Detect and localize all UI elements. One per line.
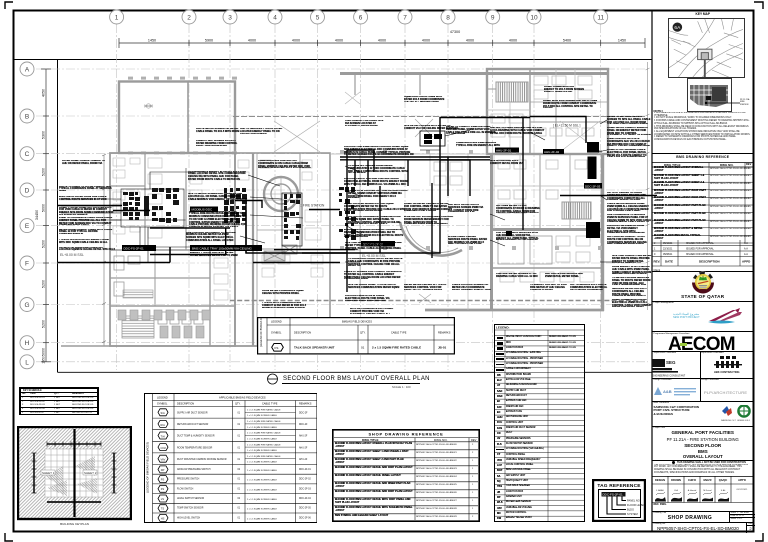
description / qty / cable / remarks tiny text (177, 411, 311, 519)
svg-text:2: 2 (654, 242, 656, 245)
left black logo text (652, 356, 698, 378)
svg-text:PS: PS (160, 477, 164, 481)
svg-text:CO2: CO2 (160, 446, 166, 450)
svg-text:01: 01 (237, 458, 240, 460)
svg-text:JB-01: JB-01 (438, 346, 447, 350)
svg-text:VAV: VAV (160, 457, 165, 461)
svg-text:A.Hamid: A.Hamid (688, 489, 697, 492)
svg-text:DESCRIPTION: DESCRIPTION (294, 332, 311, 335)
svg-text:DDC-2F: DDC-2F (299, 424, 308, 426)
svg-text:SYMBOL: SYMBOL (157, 402, 168, 405)
project title (652, 426, 754, 461)
bottom tick strip (47, 501, 101, 503)
svg-text:DESCRIPTION: DESCRIPTION (699, 259, 720, 263)
svg-text:DDC-2F-02: DDC-2F-02 (299, 478, 311, 480)
grid row lines (light) (36, 69, 648, 362)
svg-text:BMS/AS FIELD DEVICES: BMS/AS FIELD DEVICES (342, 320, 372, 324)
svg-text:DP: DP (160, 467, 164, 471)
svg-text:ROOM TEMPERATURE SENSOR: ROOM TEMPERATURE SENSOR (177, 446, 213, 449)
central building grid (45, 449, 103, 497)
ref dwg row (652, 503, 754, 511)
right wing walls (490, 154, 493, 311)
svg-text:01: 01 (237, 412, 240, 414)
svg-text:DWG TITLE: DWG TITLE (362, 437, 379, 441)
NPP section (652, 301, 754, 333)
svg-text:1 x 1.5 SQMM SCREEN CABLE: 1 x 1.5 SQMM SCREEN CABLE (247, 460, 278, 463)
svg-text:DWG NO.: DWG NO. (434, 437, 448, 441)
dashed site line (230, 300, 645, 302)
crop mark top-left (5, 2, 13, 9)
mid wing walls (235, 153, 330, 346)
svg-text:DDC-2F-03: DDC-2F-03 (299, 488, 311, 490)
top corridor band (340, 72, 608, 75)
svg-text:CABLE TYPE: CABLE TYPE (262, 402, 278, 405)
svg-text:01: 01 (237, 435, 240, 437)
svg-text:HS: HS (160, 516, 164, 520)
crop mark bottom-right (755, 533, 763, 541)
x marks (233, 116, 645, 118)
AECOM section (652, 331, 754, 352)
svg-text:HIGH LEVEL SWITCH: HIGH LEVEL SWITCH (177, 517, 200, 519)
svg-text:LEGEND: LEGEND (157, 395, 168, 399)
svg-text:01: 01 (361, 346, 365, 350)
supervision consultants two boxes (652, 351, 754, 379)
svg-text:05/12/2021: 05/12/2021 (737, 489, 749, 491)
BMS DRAWING REFERENCE table (652, 153, 754, 251)
svg-text:DESIGN: DESIGN (655, 478, 665, 482)
svg-text:2 x 1.5 SQMM SCREEN CABLE: 2 x 1.5 SQMM SCREEN CABLE (247, 517, 278, 520)
hexagons (158, 408, 168, 521)
grid bubbles left (20, 62, 34, 369)
left dimension line (41, 69, 51, 362)
svg-text:2 x 1.5 SQMM SCREEN CABLE: 2 x 1.5 SQMM SCREEN CABLE (247, 498, 278, 501)
svg-text:1 x 1.5 SQMM SCREEN CABLE: 1 x 1.5 SQMM SCREEN CABLE (247, 449, 278, 452)
svg-text:APPD: APPD (742, 259, 751, 263)
svg-text:GREEN GULF: GREEN GULF (737, 420, 751, 422)
svg-text:1 x 1.5 SQMM SCREEN CABLE: 1 x 1.5 SQMM SCREEN CABLE (247, 437, 278, 440)
client: Qatar emblem (652, 271, 754, 302)
svg-text:CHK'D: CHK'D (688, 478, 696, 482)
left/right vertical dims (32, 453, 117, 493)
svg-text:J. ABAD: J. ABAD (656, 489, 665, 492)
key map box 2 (dark port map) (687, 78, 732, 111)
svg-text:FLOOR LEVEL: FLOOR LEVEL (627, 503, 645, 507)
svg-text:REMARKS: REMARKS (438, 332, 451, 335)
svg-text:DDC-2F-04: DDC-2F-04 (299, 498, 311, 500)
svg-text:2 x 1.5 SQMM SCREEN CABLE: 2 x 1.5 SQMM SCREEN CABLE (247, 488, 278, 491)
svg-text:LS: LS (160, 496, 163, 500)
svg-text:AIRFLOW PRESSURE SWITCH: AIRFLOW PRESSURE SWITCH (177, 467, 211, 470)
svg-text:DDC-2F-06: DDC-2F-06 (299, 517, 311, 519)
central corridor band detail (330, 154, 487, 300)
crop mark top-right (754, 2, 763, 9)
right edge dim line (646, 62, 650, 310)
svg-text:REMARKS: REMARKS (299, 402, 312, 405)
bus wires left (58, 206, 170, 263)
svg-text:LEGEND: LEGEND (271, 320, 282, 324)
svg-text:(LEGEND OF BMS/AS FIELD DEVICE: (LEGEND OF BMS/AS FIELD DEVICES) (145, 441, 149, 492)
svg-text:ISSUED FOR APPROVAL: ISSUED FOR APPROVAL (686, 242, 715, 245)
svg-text:CABLE TYPE: CABLE TYPE (391, 332, 407, 335)
left wing room fixtures (113, 158, 323, 300)
stairs hatch bottom-left (122, 316, 154, 338)
hall outline (119, 82, 235, 154)
svg-text:AHU-2F: AHU-2F (299, 446, 308, 449)
svg-text:HBK CONTRACTING: HBK CONTRACTING (714, 370, 740, 374)
svg-text:2 x 1.5 SQMM SCREEN CABLE: 2 x 1.5 SQMM SCREEN CABLE (247, 468, 278, 471)
svg-text:S/A: S/A (160, 411, 164, 415)
svg-text:REV: REV (471, 437, 477, 441)
svg-text:DDC-2F-05: DDC-2F-05 (299, 507, 311, 509)
svg-text:2 x 1.5 SQMM FIRE RATED CABLE: 2 x 1.5 SQMM FIRE RATED CABLE (247, 454, 281, 457)
circular lobby (400, 222, 462, 256)
svg-text:PRESSURE SWITCH: PRESSURE SWITCH (177, 478, 200, 480)
svg-text:APPLICABLE BMS/AS FIELD DEVICE: APPLICABLE BMS/AS FIELD DEVICES (219, 395, 266, 399)
black label bars (122, 131, 602, 359)
shop drawing row (652, 511, 754, 523)
pointer + tiny label right of map2 (652, 10, 753, 120)
svg-text:FLOW SWITCH: FLOW SWITCH (177, 488, 194, 490)
svg-text:FS: FS (275, 346, 279, 350)
svg-text:DRAWN: DRAWN (671, 478, 681, 482)
svg-text:DUCT MOUNTED CARBON DIOXIDE SE: DUCT MOUNTED CARBON DIOXIDE SENSOR (177, 457, 227, 460)
svg-text:22/10/21: 22/10/21 (663, 247, 673, 250)
svg-text:A&B: A&B (663, 389, 672, 394)
svg-text:SYMBOL: SYMBOL (271, 332, 282, 335)
svg-text:SHOP DRAWING REFERENCE: SHOP DRAWING REFERENCE (368, 431, 443, 436)
svg-text:TAG REFERENCE: TAG REFERENCE (597, 483, 641, 489)
svg-text:DDC-2F: DDC-2F (299, 412, 308, 414)
right stairs (562, 202, 591, 219)
svg-text:ISSUED FOR APPROVAL: ISSUED FOR APPROVAL (686, 247, 715, 250)
leader lines (240, 120, 612, 262)
svg-text:S.Ali: S.Ali (721, 489, 726, 492)
svg-text:QTY.: QTY. (360, 332, 366, 335)
disclaimer line (652, 460, 754, 465)
svg-text:RETURN AIR DUCT SENSOR: RETURN AIR DUCT SENSOR (177, 423, 209, 426)
hatched triangles inside grid (45, 466, 63, 488)
circular stair (264, 177, 298, 211)
svg-text:JLA: JLA (674, 489, 678, 492)
svg-text:DESCRIPTION: DESCRIPTION (177, 402, 194, 405)
svg-text:TS: TS (160, 506, 164, 510)
svg-text:SYSTEM: SYSTEM (627, 512, 638, 516)
svg-text:2 x 1.5 SQMM FIRE RATED CABLE: 2 x 1.5 SQMM FIRE RATED CABLE (372, 346, 421, 350)
design consultants two boxes (652, 378, 754, 402)
approvals table (652, 476, 754, 503)
interior dim line (102, 154, 106, 346)
svg-text:01: 01 (237, 424, 240, 426)
svg-text:ISSUED FOR APPROVAL: ISSUED FOR APPROVAL (686, 253, 715, 256)
svg-text:2 x 1.5 SQMM SCREEN CABLE: 2 x 1.5 SQMM SCREEN CABLE (247, 507, 278, 510)
svg-text:QA/QC: QA/QC (719, 478, 728, 482)
svg-text:TALK BACK SPEAKER UNIT: TALK BACK SPEAKER UNIT (294, 346, 335, 350)
svg-text:02: 02 (237, 468, 240, 470)
crop mark bottom-left (5, 533, 13, 541)
svg-text:DATE: DATE (665, 259, 673, 263)
svg-text:R/A: R/A (160, 422, 165, 426)
svg-text:2 x 1.5 SQMM FIRE RATED CABLE: 2 x 1.5 SQMM FIRE RATED CABLE (247, 420, 281, 423)
svg-text:DUCT TEMP & HUMIDITY SENSOR: DUCT TEMP & HUMIDITY SENSOR (177, 435, 215, 437)
cable sub-row lines for tall rows (245, 412, 296, 458)
svg-text:SUPPLY AIR DUCT SENSOR: SUPPLY AIR DUCT SENSOR (177, 411, 208, 414)
svg-text:A.A: A.A (744, 247, 748, 250)
right wing interior detail (430, 154, 602, 310)
svg-text:PANEL NO.: PANEL NO. (627, 499, 641, 503)
extra center annotations (345, 242, 403, 250)
right HBK logo (714, 356, 744, 377)
key map label (652, 12, 754, 16)
svg-text:T/H: T/H (160, 434, 164, 438)
DDC cluster left: equipment boxes (123, 188, 179, 223)
svg-text:TEMP SWITCH SENSOR: TEMP SWITCH SENSOR (177, 507, 204, 509)
svg-text:05/12/21: 05/12/21 (663, 242, 673, 245)
svg-text:05/08/21: 05/08/21 (663, 253, 673, 256)
EL level labels (60, 253, 386, 258)
svg-text:1 x 1.5 SQMM SCREEN CABLE: 1 x 1.5 SQMM SCREEN CABLE (247, 414, 278, 417)
svg-text:(LEGEND OF BMS/AS DEVICES): (LEGEND OF BMS/AS DEVICES) (259, 317, 263, 347)
svg-text:01: 01 (237, 507, 240, 509)
center wire network (113, 117, 657, 293)
svg-text:FS: FS (160, 487, 164, 491)
drawing no row (652, 522, 754, 534)
svg-text:2 x 1.5 SQMM FIRE RATED CABLE: 2 x 1.5 SQMM FIRE RATED CABLE (247, 408, 281, 411)
svg-text:DDC-FS-2F-01: DDC-FS-2F-01 (603, 493, 623, 497)
svg-text:SHEET 2: SHEET 2 (84, 471, 97, 475)
svg-text:02: 02 (237, 498, 240, 500)
top dim line (47, 442, 101, 447)
plan area top divider (14, 59, 653, 61)
svg-text:2 x 1.5 SQMM FIRE RATED CABLE: 2 x 1.5 SQMM FIRE RATED CABLE (247, 443, 281, 446)
contractor (652, 401, 754, 427)
svg-text:01: 01 (237, 478, 240, 480)
top-right block interior (487, 69, 594, 154)
equipment boxes mid (264, 245, 297, 261)
title block separator (651, 10, 653, 532)
svg-text:REV.: REV. (654, 259, 661, 263)
grid bubbles top (110, 10, 608, 24)
top dimension line (119, 38, 645, 48)
svg-text:LEVEL SWITCH SENSOR: LEVEL SWITCH SENSOR (177, 498, 204, 500)
svg-text:ENG'R: ENG'R (703, 478, 711, 482)
svg-text:A.A: A.A (744, 253, 748, 256)
center divider (73, 429, 75, 517)
svg-text:APP'D: APP'D (738, 478, 746, 482)
svg-text:2 x 1.5 SQMM FIRE RATED CABLE: 2 x 1.5 SQMM FIRE RATED CABLE (247, 431, 281, 434)
sheet labels (41, 470, 55, 475)
grid column lines (light) (117, 24, 601, 370)
svg-text:M.Faisal: M.Faisal (703, 490, 712, 492)
revision rows (652, 240, 753, 277)
svg-text:AHU-2F: AHU-2F (299, 457, 308, 460)
svg-text:DDC-2F-01: DDC-2F-01 (299, 468, 311, 470)
left wing walls (110, 153, 235, 346)
svg-text:LEGEND:: LEGEND: (496, 326, 510, 330)
svg-text:SAMSUNG C&T: SAMSUNG C&T (721, 419, 736, 422)
svg-text:A.A: A.A (744, 242, 748, 245)
svg-text:QTY.: QTY. (235, 402, 241, 405)
mid riser cluster (224, 187, 356, 240)
bottom-left fixtures row (118, 310, 210, 338)
svg-text:01: 01 (237, 488, 240, 490)
svg-text:2 x 1.5 SQMM SCREEN CABLE: 2 x 1.5 SQMM SCREEN CABLE (247, 478, 278, 481)
svg-text:1: 1 (654, 247, 656, 250)
svg-text:01: 01 (237, 517, 240, 519)
rows content of ref table (652, 165, 754, 167)
key map box 1 (street map) (668, 18, 745, 79)
svg-text:AHU-2F: AHU-2F (299, 434, 308, 437)
svg-text:SEG: SEG (666, 360, 676, 365)
svg-text:01: 01 (237, 447, 240, 449)
svg-text:1 x 1.5 SQMM SCREEN CABLE: 1 x 1.5 SQMM SCREEN CABLE (247, 425, 278, 428)
svg-text:SHEET 1: SHEET 1 (42, 471, 55, 475)
plan area left divider (57, 60, 59, 373)
svg-text:0: 0 (654, 253, 656, 256)
top-right block (487, 69, 608, 154)
notes (654, 109, 753, 113)
svg-text:BLDG: BLDG (627, 508, 634, 512)
